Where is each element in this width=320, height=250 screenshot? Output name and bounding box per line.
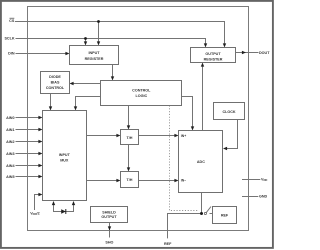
svg-text:VDD/2: VDD/2 (30, 211, 39, 216)
svg-text:AIN5: AIN5 (6, 175, 14, 179)
svg-text:CLOCK: CLOCK (222, 110, 235, 114)
svg-text:REGISTER: REGISTER (85, 57, 104, 61)
svg-text:BIAS: BIAS (51, 81, 60, 85)
svg-text:AIN4: AIN4 (6, 164, 15, 168)
svg-text:AIN1: AIN1 (6, 128, 14, 132)
svg-text:SCLK: SCLK (4, 37, 14, 41)
svg-text:REF: REF (164, 242, 172, 246)
svg-text:VDD: VDD (261, 177, 267, 182)
svg-text:CONTROL: CONTROL (46, 86, 65, 90)
svg-text:INPUT: INPUT (88, 51, 100, 55)
svg-text:IN−: IN− (181, 179, 186, 183)
svg-text:CONTROL: CONTROL (132, 88, 151, 92)
svg-text:IN+: IN+ (181, 134, 186, 138)
svg-text:DOUT: DOUT (259, 51, 270, 55)
svg-text:ADC: ADC (197, 160, 205, 164)
svg-text:AIN3: AIN3 (6, 152, 14, 156)
svg-text:CS: CS (9, 19, 15, 23)
svg-text:INPUT: INPUT (59, 153, 71, 157)
svg-text:SHO: SHO (105, 241, 113, 245)
svg-text:DIN: DIN (8, 52, 15, 56)
svg-text:REGISTER: REGISTER (204, 57, 223, 61)
svg-text:OUTPUT: OUTPUT (101, 215, 117, 219)
svg-text:LOGIC: LOGIC (135, 94, 147, 98)
svg-text:T/H: T/H (127, 178, 133, 182)
svg-text:AIN2: AIN2 (6, 140, 14, 144)
svg-text:OUTPUT: OUTPUT (205, 52, 221, 56)
svg-text:AIN0: AIN0 (6, 116, 14, 120)
svg-text:DIODE: DIODE (49, 75, 61, 79)
svg-text:REF: REF (221, 214, 229, 218)
svg-text:MUX: MUX (60, 158, 69, 162)
svg-text:T/H: T/H (127, 136, 133, 140)
svg-text:GND: GND (259, 195, 268, 199)
